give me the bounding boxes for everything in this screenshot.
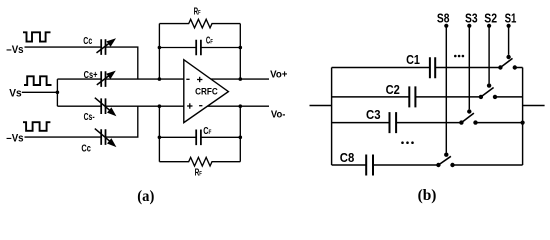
op-amp minus (top-left) [186, 78, 189, 80]
switch S3 control node [467, 109, 471, 113]
wire -Vs top row to Cc [25, 46, 102, 48]
wire output Vo- [200, 105, 269, 107]
capacitor CF bottom row [159, 136, 240, 138]
wire C3 row [332, 122, 523, 124]
svg-text:(b): (b) [418, 185, 437, 204]
switch S3 contacts [459, 120, 463, 124]
node S1 top [507, 24, 511, 28]
svg-text:(a): (a) [137, 186, 154, 205]
capacitor Cc bottom plates [101, 129, 105, 145]
wire Cc top to Cs+ row [106, 47, 138, 79]
switch S2 contacts [479, 95, 483, 99]
switch S8 control node [444, 153, 448, 157]
svg-text:S1: S1 [505, 12, 517, 26]
ellipsis below C3 [401, 141, 404, 144]
control line S3 [468, 26, 470, 110]
clock waveform middle (Vs) [24, 76, 52, 85]
svg-text:–Vs: –Vs [6, 133, 23, 145]
svg-text:S2: S2 [484, 12, 497, 26]
svg-text:Vs: Vs [9, 87, 21, 99]
svg-text:Cs+: Cs+ [84, 69, 98, 81]
capacitor Cs+ plates [101, 71, 105, 87]
left bus [331, 68, 333, 166]
feedback bottom right rail [239, 106, 241, 162]
node feedback top-left CF [158, 46, 162, 50]
op-amp U1 CRFC [184, 60, 229, 123]
capacitor Cs- plates [101, 98, 105, 114]
node Vo- rail [239, 104, 243, 108]
svg-text:–Vs: –Vs [6, 44, 23, 56]
svg-text:C2: C2 [386, 83, 400, 97]
switch S1 contacts [498, 65, 502, 69]
switch S1 control node [506, 55, 510, 59]
capacitor C8 plates [366, 155, 373, 176]
svg-text:S3: S3 [465, 12, 478, 26]
op-amp plus (bottom-left) [187, 105, 192, 107]
right bus [522, 68, 524, 166]
ellipsis top between S8 and S3 [454, 55, 457, 58]
capacitor C1 plates [430, 57, 435, 78]
clock waveform top (-Vs) [23, 32, 51, 41]
capacitor C3 plates [390, 112, 397, 133]
svg-text:C3: C3 [366, 108, 381, 122]
svg-text:C1: C1 [406, 53, 420, 67]
switch S2 lever [481, 88, 494, 97]
wire Cc bottom to Cs- row [106, 106, 138, 137]
wire C1 row [332, 67, 523, 69]
svg-text:Vo+: Vo+ [270, 69, 287, 80]
feedback top left rail [158, 24, 160, 80]
node feedback top-right CF [239, 46, 243, 50]
resistor RF top [159, 19, 240, 28]
wire C2 row [332, 96, 523, 98]
variable arrow Cc bottom [95, 129, 111, 142]
variable arrow Cs+ [97, 75, 110, 85]
variable arrow Cc top [97, 43, 111, 53]
svg-text:Cc: Cc [83, 35, 92, 47]
wire Cs+ row [57, 78, 183, 80]
switch S2 control node [487, 83, 491, 87]
wire -Vs bottom row to Cc [25, 136, 102, 138]
svg-text:Cs-: Cs- [84, 111, 95, 123]
capacitor Cc top plates [101, 39, 105, 55]
switch S1 lever [500, 58, 512, 67]
wire output Vo+ [200, 78, 269, 80]
node Vo+ rail [239, 77, 243, 81]
capacitor CF top row [159, 47, 240, 49]
feedback bottom left rail [158, 106, 160, 162]
svg-text:C8: C8 [340, 151, 355, 165]
svg-text:CRFC: CRFC [195, 87, 218, 97]
node noninverting input [158, 104, 162, 108]
wire input junction vertical [56, 79, 58, 106]
feedback top right rail [239, 24, 241, 80]
control line S1 [508, 26, 510, 55]
node Vs junction [56, 91, 60, 95]
svg-text:Cc: Cc [81, 143, 91, 155]
capacitor C2 plates [409, 86, 415, 107]
node feedback bottom-right CF [239, 136, 243, 140]
node inverting input [158, 77, 162, 81]
output stub [523, 105, 545, 107]
control line S8 [445, 26, 447, 153]
switch S3 lever [461, 113, 474, 123]
control line S2 [488, 26, 490, 84]
op-amp plus (top-right) [197, 79, 202, 81]
switch S8 contacts [436, 163, 440, 167]
wire C8 row [332, 164, 523, 166]
node feedback bottom-left CF [158, 136, 162, 140]
wire Cs- row [57, 105, 183, 107]
variable arrow Cs- [95, 98, 111, 111]
resistor RF bottom [159, 157, 240, 166]
node S2 top [487, 24, 491, 28]
node S8 top [444, 24, 448, 28]
wire Vs row [22, 91, 58, 93]
op-amp minus (bottom-right) [199, 105, 202, 107]
node C3 right bus [521, 121, 525, 125]
svg-text:S8: S8 [437, 12, 450, 26]
input stub [310, 105, 332, 107]
svg-text:Vo-: Vo- [271, 110, 286, 121]
switch S8 lever [438, 156, 451, 165]
clock waveform bottom (-Vs) [23, 122, 50, 131]
node S3 top [467, 24, 471, 28]
